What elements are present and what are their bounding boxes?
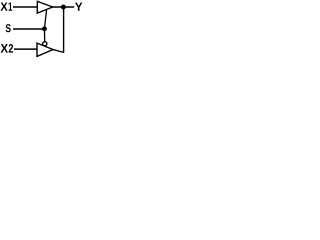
wire Y node down right side [63, 7, 65, 53]
wire U1 output to Y node [52, 6, 74, 8]
wire X1 to buffer input [13, 6, 38, 8]
wire enable node down to U2 bubble [43, 29, 45, 42]
inverter bubble on U2 enable [43, 42, 47, 46]
label S [6, 24, 11, 32]
tri-state buffer U1 (top) [37, 1, 52, 13]
label Y [75, 3, 82, 11]
wire S to enable node [13, 28, 45, 30]
junction dot (Y node) [61, 5, 66, 10]
wire X2 to buffer input [14, 48, 37, 50]
label X1 [1, 3, 13, 11]
wire U1 enable (vertical from S node up to U1) [44, 10, 46, 29]
label X2 [1, 44, 14, 53]
tri-state buffer U2 (bottom, inverted enable) [37, 43, 53, 56]
wire U2 output to right vertical [53, 49, 65, 52]
junction dot (S enable node) [42, 26, 47, 31]
